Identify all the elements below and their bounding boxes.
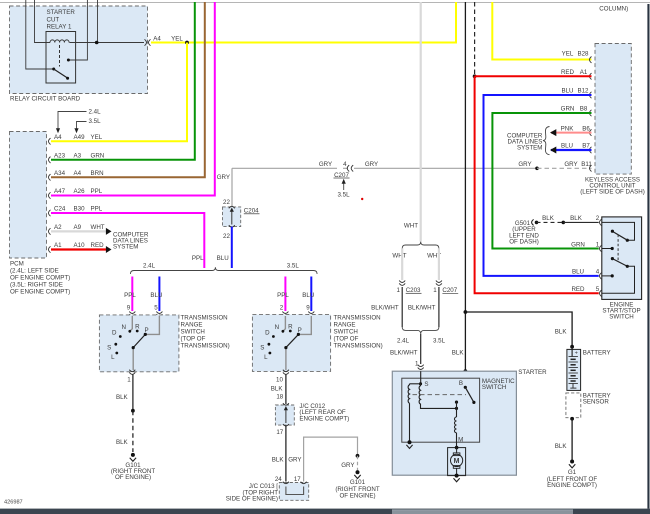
TRS1 contact dots <box>114 330 138 355</box>
svg-text:GRN: GRN <box>91 153 105 160</box>
wire WHT A2 <box>51 230 106 232</box>
svg-text:BLK: BLK <box>555 443 568 450</box>
C012 label <box>299 403 349 423</box>
svg-text:B7: B7 <box>582 143 590 150</box>
svg-text:(TOP OF: (TOP OF <box>181 336 206 343</box>
starter box <box>392 371 516 475</box>
junction dot relay wire <box>95 41 99 45</box>
svg-text:S: S <box>107 344 111 351</box>
svg-text:YEL: YEL <box>562 50 574 57</box>
G501 label <box>509 220 539 246</box>
svg-text:RANGE: RANGE <box>181 321 203 328</box>
junction dot starter top <box>464 369 468 373</box>
svg-text:B30: B30 <box>74 206 86 213</box>
ESS lower switch <box>611 257 629 268</box>
junction dot yellow <box>185 41 189 45</box>
wire BLK dashed G501 <box>537 221 564 223</box>
svg-text:GRN: GRN <box>561 106 575 113</box>
svg-text:BLK/WHT: BLK/WHT <box>408 304 436 311</box>
computer data lines label right <box>507 132 543 151</box>
wire BLU B7 <box>550 147 592 154</box>
PCM label <box>10 261 70 296</box>
svg-text:A4: A4 <box>54 134 62 141</box>
ESS upper switch <box>611 230 629 242</box>
fixed contacts <box>455 401 458 411</box>
3.5L pointer <box>74 118 101 133</box>
wire PPL 2.4L branch <box>131 277 133 312</box>
mech link dashed <box>413 394 467 396</box>
connector at board edge <box>145 39 151 45</box>
svg-text:+: + <box>575 351 578 357</box>
PCM box <box>10 132 47 259</box>
options brace PPL BLU split <box>130 267 317 274</box>
svg-text:SWITCH: SWITCH <box>334 329 358 336</box>
splice dot GRY <box>356 454 360 458</box>
wire BLK to G1 <box>571 419 573 462</box>
svg-text:P: P <box>145 327 149 334</box>
svg-text:4: 4 <box>596 268 600 275</box>
svg-text:GRY: GRY <box>518 161 531 168</box>
svg-text:3.5L: 3.5L <box>287 263 300 270</box>
svg-text:TRANSMISSION: TRANSMISSION <box>334 314 381 321</box>
svg-text:RELAY 1: RELAY 1 <box>47 24 72 31</box>
label GRY left of C207 <box>319 161 332 168</box>
ESS pin connectors <box>600 219 602 296</box>
battery top dot <box>570 345 574 349</box>
label 17 <box>276 429 283 436</box>
svg-text:C203: C203 <box>406 287 421 294</box>
ground G101 right <box>335 470 379 499</box>
TRS1 pin connectors <box>129 312 162 317</box>
TRS2 label <box>334 314 383 349</box>
svg-text:GRY: GRY <box>564 161 577 168</box>
magnetic switch label <box>482 378 515 391</box>
svg-text:C24: C24 <box>54 206 66 213</box>
TRS2 position labels <box>260 324 302 362</box>
ground G501 <box>532 219 539 225</box>
wire BLKWHT left <box>401 287 403 327</box>
labels RED A1 <box>561 69 588 76</box>
label BLK <box>452 350 465 357</box>
svg-text:22: 22 <box>223 199 230 206</box>
scrollbar track <box>0 509 650 514</box>
svg-text:ENGINE COMPT): ENGINE COMPT) <box>547 482 597 489</box>
svg-text:BLK: BLK <box>116 394 129 401</box>
svg-text:SWITCH: SWITCH <box>482 384 506 391</box>
svg-text:BLU: BLU <box>150 292 162 299</box>
svg-text:A3: A3 <box>74 153 82 160</box>
svg-text:COLUMN): COLUMN) <box>599 6 628 13</box>
keyless label <box>580 177 645 196</box>
svg-text:PPL: PPL <box>277 292 289 299</box>
svg-text:C204: C204 <box>244 207 259 214</box>
svg-text:426987: 426987 <box>4 499 23 505</box>
svg-text:OF ENGINE COMPT): OF ENGINE COMPT) <box>10 275 70 282</box>
labels BLU B7 <box>561 143 590 150</box>
page number <box>4 499 23 505</box>
label GRY right of C207 <box>365 161 378 168</box>
svg-text:(3.5L: RIGHT SIDE: (3.5L: RIGHT SIDE <box>10 282 63 289</box>
svg-text:PNK: PNK <box>561 125 575 132</box>
svg-text:B: B <box>459 380 463 387</box>
label GRY vertical segment <box>217 174 230 181</box>
pin labels A2 A9 WHT <box>54 224 105 231</box>
wire BLK to ESS pin2 <box>563 221 598 223</box>
label BATTERY SENSOR <box>583 392 611 405</box>
svg-text:18: 18 <box>276 394 283 401</box>
label BLK <box>116 394 129 401</box>
labels PNK B6 <box>561 125 591 132</box>
battery <box>567 347 581 391</box>
label 2.4L branch <box>143 263 156 270</box>
svg-text:YEL: YEL <box>91 134 103 141</box>
svg-text:2.4L: 2.4L <box>397 337 410 344</box>
2.4L pointer <box>56 109 101 134</box>
wire BLKWHT right <box>438 287 440 327</box>
labels GRN B8 <box>561 106 588 113</box>
motor box <box>448 448 466 476</box>
labels GRN 1 <box>571 241 600 248</box>
C013 label <box>226 483 279 503</box>
svg-text:5: 5 <box>596 286 600 293</box>
wire PPL A47 from PCM <box>51 2 215 196</box>
scrollbar thumb <box>392 510 573 514</box>
splice dot <box>131 409 135 413</box>
svg-text:(TOP OF: (TOP OF <box>334 336 359 343</box>
battery sensor <box>566 393 581 418</box>
svg-text:RED: RED <box>571 286 585 293</box>
svg-text:BLK: BLK <box>570 215 583 222</box>
ESS pin1 internal <box>602 247 614 250</box>
svg-text:GRN: GRN <box>571 242 585 249</box>
svg-text:BRN: BRN <box>91 170 104 177</box>
TRS1 position labels <box>107 324 149 362</box>
TRS1 internal wires <box>130 316 159 370</box>
pin labels A4 A49 YEL <box>54 134 103 141</box>
wire GRY to C204 <box>232 168 537 207</box>
junction connector C013 <box>279 482 308 501</box>
svg-text:PCM: PCM <box>10 261 24 268</box>
svg-text:STARTER: STARTER <box>518 369 547 376</box>
svg-text:R: R <box>135 324 140 331</box>
svg-text:PPL: PPL <box>124 292 136 299</box>
svg-text:B8: B8 <box>580 106 588 113</box>
svg-text:5: 5 <box>154 305 158 312</box>
svg-text:A9: A9 <box>74 224 82 231</box>
svg-text:OF ENGINE COMPT): OF ENGINE COMPT) <box>10 289 70 296</box>
wire board vertical 4 <box>97 0 99 43</box>
label 1 starter <box>415 360 419 367</box>
wire BLU 3.5L branch <box>310 277 312 312</box>
svg-text:S: S <box>424 381 428 388</box>
pin numbers 9 5 <box>127 305 159 312</box>
wire BLU from C204 <box>231 227 233 268</box>
svg-text:3.5L: 3.5L <box>337 192 350 199</box>
label BLK 2 <box>116 439 129 446</box>
starter entry connector <box>418 365 424 370</box>
wire board vertical 2 <box>35 0 51 43</box>
wire board vertical 1 <box>26 0 53 69</box>
wire board vertical 3 <box>70 0 88 60</box>
wire S terminal <box>420 371 422 384</box>
ground under motor <box>454 474 460 482</box>
svg-text:A1: A1 <box>580 69 588 76</box>
svg-text:YEL: YEL <box>171 35 183 42</box>
TRS1 bottom connector <box>127 370 135 384</box>
svg-text:2: 2 <box>596 215 600 222</box>
3.5L arrow at C207 <box>337 179 350 199</box>
svg-text:GRY: GRY <box>217 174 230 181</box>
TRS2 blade <box>284 333 300 349</box>
svg-text:GRY: GRY <box>365 161 378 168</box>
wire GRN from PCM <box>51 2 195 160</box>
label PPL BLU above brace <box>192 255 229 262</box>
wire BLU 2.4L branch <box>158 277 160 312</box>
label WHT <box>404 222 418 229</box>
svg-text:(2.4L: LEFT SIDE: (2.4L: LEFT SIDE <box>10 268 59 275</box>
ESS mech link <box>617 235 619 263</box>
wire PNK B6 <box>550 129 592 136</box>
svg-text:3.5L: 3.5L <box>89 118 102 125</box>
labels PPL BLU 3.5L <box>277 292 314 299</box>
svg-text:RANGE: RANGE <box>334 321 356 328</box>
labels BLK 2 <box>570 215 600 222</box>
label STARTER <box>518 369 547 376</box>
svg-text:SIDE OF ENGINE): SIDE OF ENGINE) <box>226 496 278 503</box>
svg-text:C207: C207 <box>442 287 457 294</box>
svg-text:SWITCH: SWITCH <box>609 313 633 320</box>
svg-text:A1: A1 <box>54 242 62 249</box>
svg-text:BLK: BLK <box>555 329 568 336</box>
svg-text:N: N <box>121 324 125 331</box>
svg-text:D: D <box>265 329 270 336</box>
wire BLK TRS1 ground <box>132 375 134 411</box>
pin labels A23 A3 GRN <box>54 153 104 160</box>
labels YEL B28 <box>562 50 589 57</box>
coil 3 series <box>455 408 457 447</box>
svg-text:BATTERY: BATTERY <box>583 349 611 356</box>
labels WHT WHT <box>392 253 441 260</box>
brace WHT merge <box>402 327 439 334</box>
junction dot GRY <box>535 167 539 171</box>
svg-text:L: L <box>264 354 268 361</box>
svg-text:BLK/WHT: BLK/WHT <box>390 350 418 357</box>
connector C203 <box>397 281 422 294</box>
ground G101 left <box>111 453 155 481</box>
computer data lines label left <box>113 231 149 250</box>
svg-text:1: 1 <box>397 287 401 294</box>
wire BLKWHT center <box>420 334 422 364</box>
svg-text:BLK: BLK <box>542 215 555 222</box>
pin numbers 2 9 <box>280 305 311 312</box>
label 3.5L branch <box>287 263 300 270</box>
label BLK dashed <box>542 215 555 222</box>
engine start stop switch box <box>602 217 642 300</box>
transmission range switch 2 box <box>252 315 330 372</box>
svg-text:BLK: BLK <box>272 457 285 464</box>
relay circuit board box <box>10 6 148 103</box>
label BLKWHT center <box>390 350 418 357</box>
artifact red dot <box>361 198 363 200</box>
svg-text:RELAY CIRCUIT BOARD: RELAY CIRCUIT BOARD <box>10 96 81 103</box>
svg-text:1: 1 <box>433 287 437 294</box>
right window edge <box>647 4 649 509</box>
svg-text:CUT: CUT <box>47 16 60 23</box>
pin labels A47 A26 PPL <box>54 188 103 195</box>
wire BLK to battery <box>465 312 572 347</box>
label BLK G1 <box>555 443 568 450</box>
svg-text:9: 9 <box>127 305 131 312</box>
svg-text:BLU: BLU <box>572 269 584 276</box>
label GRY B11 <box>518 161 592 168</box>
svg-text:2.4L: 2.4L <box>143 263 156 270</box>
transmission range switch 1 box <box>99 315 178 372</box>
label BATTERY <box>583 349 611 356</box>
svg-text:17: 17 <box>276 429 283 436</box>
wire WHT right branch <box>438 248 440 280</box>
svg-text:SENSOR: SENSOR <box>583 399 610 406</box>
wire YEL main <box>151 2 456 43</box>
svg-text:SYSTEM: SYSTEM <box>113 243 138 250</box>
brace computer data lines <box>543 127 550 155</box>
svg-text:GRY: GRY <box>288 457 301 464</box>
svg-text:A26: A26 <box>74 188 86 195</box>
svg-text:RED: RED <box>91 242 105 249</box>
label A4 YEL <box>153 35 183 42</box>
svg-text:ENGINE COMPT): ENGINE COMPT) <box>299 416 349 423</box>
svg-text:P: P <box>298 327 302 334</box>
pin labels 24 17 <box>275 476 301 483</box>
svg-text:D: D <box>112 329 117 336</box>
junction dot red <box>473 74 477 78</box>
sensor bottom dot <box>570 417 574 421</box>
pin labels A34 A4 BRN <box>54 170 104 177</box>
connector C204 <box>223 199 260 240</box>
starter cut relay 1 <box>46 9 76 83</box>
svg-text:B28: B28 <box>577 50 589 57</box>
svg-text:RED: RED <box>561 69 575 76</box>
svg-text:N: N <box>275 324 279 331</box>
wire GRY dashed to B11 <box>537 167 592 169</box>
svg-text:BLU: BLU <box>302 292 314 299</box>
pin labels C24 B30 PPL <box>54 206 103 213</box>
labels RED 5 <box>571 286 599 293</box>
svg-text:2.4L: 2.4L <box>89 109 102 116</box>
svg-text:BLK: BLK <box>116 439 129 446</box>
M terminal label <box>458 436 463 443</box>
svg-text:BLK: BLK <box>271 385 284 392</box>
wire BLK below TRS2 <box>285 375 287 405</box>
connector C207 inline <box>334 161 354 179</box>
B terminal <box>459 380 467 389</box>
coil 1 <box>408 384 409 403</box>
relay coil <box>50 40 69 43</box>
wire YEL drop to PCM <box>51 43 187 142</box>
svg-text:WHT: WHT <box>404 222 418 229</box>
relay mech link <box>59 45 61 67</box>
relay output wire <box>70 42 145 44</box>
ESS pin2 internal path <box>602 222 635 240</box>
splice dot BLK <box>562 221 566 225</box>
svg-text:SYSTEM: SYSTEM <box>517 145 542 152</box>
wire PPL C24 from PCM <box>51 213 204 268</box>
svg-text:M: M <box>454 458 460 465</box>
TRS2 bottom connector <box>276 370 289 384</box>
svg-text:TRANSMISSION): TRANSMISSION) <box>334 343 383 350</box>
svg-text:1: 1 <box>415 360 419 367</box>
labels BLK GRY above C013 <box>272 457 302 464</box>
svg-text:BLU: BLU <box>217 255 229 262</box>
svg-text:SWITCH: SWITCH <box>181 329 205 336</box>
PCM pin connectors <box>49 138 51 253</box>
svg-text:GRY: GRY <box>341 462 354 469</box>
wire BRN from PCM <box>51 2 205 177</box>
svg-text:PPL: PPL <box>91 188 103 195</box>
top page rule <box>0 2 650 4</box>
B blade <box>465 387 475 404</box>
svg-text:10: 10 <box>276 376 283 383</box>
labels BLU B12 <box>561 88 589 95</box>
svg-text:PPL: PPL <box>192 255 204 262</box>
junction dot battery branch <box>464 310 468 314</box>
keyless access control unit box <box>595 44 631 175</box>
svg-text:TRANSMISSION): TRANSMISSION) <box>181 343 230 350</box>
svg-text:GRY: GRY <box>319 161 332 168</box>
svg-text:PPL: PPL <box>91 206 103 213</box>
svg-text:A34: A34 <box>54 170 66 177</box>
svg-text:BLU: BLU <box>561 143 573 150</box>
svg-text:B6: B6 <box>582 125 590 132</box>
svg-text:1: 1 <box>127 376 131 383</box>
motor <box>451 446 463 476</box>
coil 2 <box>419 384 420 404</box>
svg-text:B11: B11 <box>581 161 592 168</box>
svg-text:TRANSMISSION: TRANSMISSION <box>181 314 228 321</box>
wire RED A1 <box>51 248 106 250</box>
svg-text:R: R <box>288 324 293 331</box>
wire coil1 to ground <box>409 403 411 442</box>
svg-text:4: 4 <box>343 161 347 168</box>
svg-text:OF DASH): OF DASH) <box>509 239 539 246</box>
labels 2.4L 3.5L <box>397 337 446 344</box>
svg-text:WHT: WHT <box>392 253 406 260</box>
svg-text:OF ENGINE): OF ENGINE) <box>115 474 151 481</box>
svg-text:3.5L: 3.5L <box>433 337 446 344</box>
label GRY <box>341 462 354 469</box>
connector C207 starter <box>433 281 458 294</box>
svg-text:A4: A4 <box>74 170 82 177</box>
ground dot magnetic switch <box>406 440 412 448</box>
svg-text:A4: A4 <box>153 35 161 42</box>
wire GRY loop to G101 <box>304 437 358 481</box>
wire YEL keyless B28 <box>492 2 591 60</box>
brace WHT split <box>402 242 439 249</box>
svg-text:WHT: WHT <box>91 224 105 231</box>
wire to coil1 <box>410 383 421 385</box>
svg-text:M: M <box>458 436 463 443</box>
TRS2 pin connectors <box>282 312 314 317</box>
wire WHT left branch <box>401 248 403 280</box>
svg-text:B12: B12 <box>577 88 589 95</box>
relay switch <box>52 59 70 80</box>
wire GRN B8 <box>492 113 598 249</box>
wire BLK long vertical <box>464 2 466 387</box>
svg-text:(LEFT SIDE OF DASH): (LEFT SIDE OF DASH) <box>580 189 645 196</box>
ESS pin4 internal <box>602 274 614 277</box>
wire BLK dashed <box>132 411 134 452</box>
svg-text:A47: A47 <box>54 188 66 195</box>
TRS1 blade <box>132 333 147 349</box>
